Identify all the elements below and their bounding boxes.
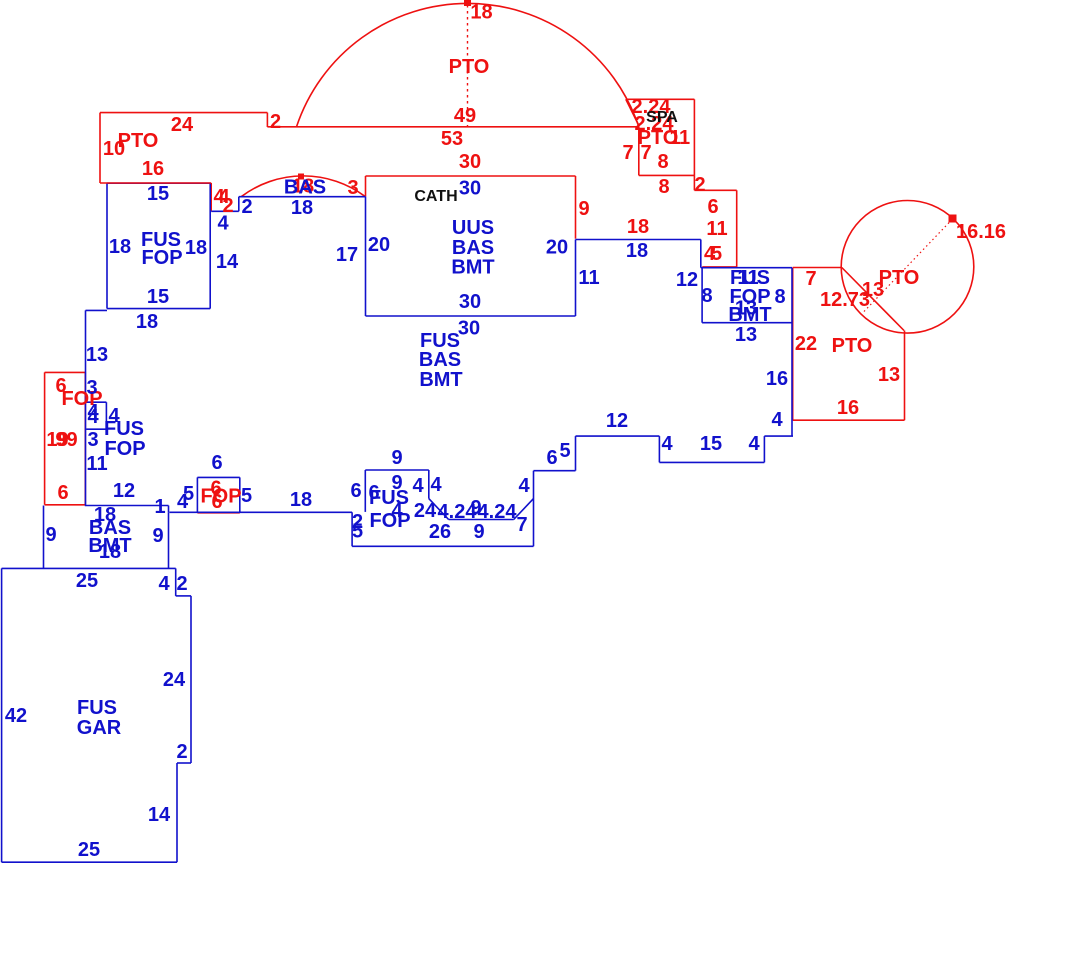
svg-text:15: 15	[147, 183, 169, 205]
svg-text:2: 2	[270, 111, 281, 133]
SPA box top wall	[626, 98, 695, 100]
svg-text:CATH: CATH	[414, 188, 457, 205]
svg-text:8: 8	[774, 286, 785, 308]
svg-text:5: 5	[241, 485, 252, 507]
svg-text:15: 15	[700, 433, 722, 455]
wall step 2 right of PTO rect	[266, 113, 268, 127]
outer step wall below FUS FOP	[86, 309, 108, 311]
step wall 5 down	[575, 436, 577, 471]
svg-text:18: 18	[136, 311, 158, 333]
step wall 1	[168, 506, 170, 513]
dome step wall 4	[211, 210, 239, 212]
small FOP box left wall	[196, 477, 198, 512]
svg-text:3: 3	[86, 377, 97, 399]
svg-text:16: 16	[837, 397, 859, 419]
bottom FUS FOP left wall 5	[351, 512, 353, 546]
svg-text:4: 4	[177, 491, 189, 513]
svg-text:11: 11	[578, 267, 599, 289]
small left box top wall 4	[86, 401, 106, 403]
svg-text:20: 20	[546, 237, 568, 259]
svg-text:30: 30	[459, 291, 481, 313]
inner FUS FOP right wall 4	[428, 470, 430, 499]
svg-text:FOP: FOP	[369, 510, 410, 532]
svg-text:26: 26	[429, 521, 451, 543]
svg-text:18: 18	[185, 237, 207, 259]
step wall 4	[764, 435, 793, 437]
svg-text:9: 9	[391, 447, 402, 469]
svg-text:BMT: BMT	[728, 304, 771, 326]
svg-text:9: 9	[473, 521, 484, 543]
svg-text:4: 4	[87, 406, 99, 428]
svg-text:16: 16	[766, 368, 788, 390]
inner FUS FOP top wall 9	[365, 469, 429, 471]
svg-text:30: 30	[458, 318, 480, 340]
svg-text:12: 12	[113, 480, 135, 502]
small FOP box red bottom wall	[197, 512, 239, 514]
svg-text:6: 6	[707, 196, 718, 218]
svg-text:BMT: BMT	[419, 369, 462, 391]
bottom FUS FOP bottom wall 26	[352, 545, 533, 547]
svg-text:1: 1	[154, 496, 165, 518]
svg-text:PTO: PTO	[449, 56, 490, 78]
svg-text:20: 20	[368, 234, 390, 256]
big box top wall 30 red	[366, 175, 576, 177]
svg-text:6: 6	[546, 447, 557, 469]
FUS GAR right wall 14	[176, 763, 178, 862]
svg-text:6: 6	[350, 480, 361, 502]
step wall 4 down	[763, 436, 765, 462]
svg-text:15: 15	[147, 286, 169, 308]
big box right wall 11 blue	[575, 240, 577, 317]
arc apex marker	[464, 0, 471, 6]
inner bottom wall 9	[449, 519, 514, 521]
svg-text:18: 18	[626, 240, 648, 262]
FUS FOP box right wall 14	[209, 183, 211, 308]
inner diagonal wall 4.24 left	[429, 499, 449, 520]
FUS GAR left wall 42	[1, 568, 3, 862]
svg-text:9: 9	[578, 198, 589, 220]
inner FUS FOP left wall 6	[364, 470, 366, 512]
SPA left wall 7	[638, 127, 640, 176]
FUS GAR notch wall 2	[177, 762, 191, 764]
svg-text:1: 1	[679, 127, 690, 149]
svg-text:7: 7	[640, 142, 651, 164]
big box left wall 20	[365, 197, 367, 316]
svg-text:5: 5	[711, 243, 722, 265]
svg-text:4: 4	[430, 474, 442, 496]
svg-text:4: 4	[412, 475, 424, 497]
svg-text:13: 13	[86, 344, 108, 366]
SPA bottom wall 8	[639, 174, 695, 176]
bottom FUS FOP right wall	[533, 471, 535, 547]
svg-text:7: 7	[805, 268, 816, 290]
long wall 18 to BAS BMT	[170, 511, 353, 513]
svg-text:17: 17	[336, 244, 358, 266]
svg-text:18: 18	[99, 541, 121, 563]
circle diameter dotted line	[864, 219, 953, 312]
step wall 4 up	[658, 436, 660, 462]
svg-text:49: 49	[454, 105, 476, 127]
svg-text:4: 4	[518, 475, 530, 497]
left FOP red box left wall 19	[44, 372, 46, 504]
BAS BMT left wall 9	[43, 506, 45, 569]
svg-text:25: 25	[76, 570, 98, 592]
FUS FOP BMT box top wall	[701, 267, 792, 269]
red wall 3 big box left top	[365, 176, 367, 197]
wall 18 right of big box	[576, 239, 701, 241]
step wall 6	[534, 470, 576, 472]
left FOP red box right wall	[84, 372, 86, 504]
svg-text:GAR: GAR	[77, 717, 122, 739]
FUS FOP BMT box left wall 8	[701, 268, 703, 323]
svg-text:FUS: FUS	[77, 697, 117, 719]
svg-text:12: 12	[676, 269, 698, 291]
svg-text:6: 6	[211, 491, 222, 513]
svg-text:11: 11	[706, 218, 727, 240]
svg-text:13: 13	[735, 324, 757, 346]
svg-text:2: 2	[176, 573, 187, 595]
big box right wall 9 red	[575, 176, 577, 239]
big top arc PTO	[297, 3, 639, 126]
svg-text:BMT: BMT	[451, 257, 494, 279]
svg-text:FUS: FUS	[369, 487, 409, 509]
svg-text:4.24: 4.24	[478, 501, 518, 523]
svg-text:25: 25	[78, 839, 100, 861]
svg-text:6: 6	[211, 452, 222, 474]
svg-text:FOP: FOP	[141, 247, 182, 269]
FUS GAR step wall 2	[176, 595, 191, 597]
right wall 16 down along PTO	[791, 268, 793, 436]
step wall 15	[659, 461, 764, 463]
arc rise dotted line	[467, 5, 469, 127]
SPA right wall	[693, 99, 695, 175]
svg-text:PTO: PTO	[832, 335, 873, 357]
FUS FOP box left wall 18	[106, 183, 108, 308]
right PTO left wall 22	[792, 268, 794, 421]
svg-text:30: 30	[459, 151, 481, 173]
circle diameter marker	[949, 215, 957, 223]
svg-text:4: 4	[748, 433, 760, 455]
SPA diagonal wall 2.24	[626, 99, 639, 125]
svg-text:2: 2	[694, 174, 705, 196]
svg-text:5: 5	[352, 521, 363, 543]
svg-text:SPA: SPA	[646, 109, 678, 126]
step wall 6	[694, 189, 736, 191]
dome chord wall 18	[239, 196, 366, 198]
svg-text:14: 14	[216, 251, 239, 273]
svg-text:10: 10	[103, 138, 125, 160]
small left box right wall	[105, 402, 107, 429]
inner diagonal wall 4.24 right	[514, 499, 534, 520]
PTO top-left rect left wall 10	[99, 113, 101, 183]
svg-text:30: 30	[459, 178, 481, 200]
FUS FOP BMT box bottom wall 13	[702, 322, 792, 324]
dome apex marker	[298, 174, 304, 180]
dome step wall 2	[238, 197, 240, 212]
small left box bottom wall	[86, 428, 106, 430]
right PTO diagonal wall 12.73	[842, 268, 904, 331]
small FOP box right wall	[239, 477, 241, 512]
FUS GAR right wall 24	[190, 596, 192, 763]
svg-text:3: 3	[87, 429, 98, 451]
small FOP box top wall 6	[197, 476, 239, 478]
PTO top-left rect bottom wall 16	[100, 182, 211, 184]
svg-text:6: 6	[57, 482, 68, 504]
svg-text:13: 13	[878, 364, 900, 386]
svg-text:5: 5	[559, 440, 570, 462]
svg-text:7: 7	[622, 142, 633, 164]
right PTO bottom wall 16	[793, 419, 905, 421]
svg-text:BAS: BAS	[419, 349, 461, 371]
PTO top-left rect top wall 24	[100, 112, 267, 114]
svg-text:4: 4	[771, 409, 783, 431]
svg-text:18: 18	[627, 216, 649, 238]
left FOP red box top wall 6	[45, 371, 86, 373]
svg-text:18: 18	[291, 197, 313, 219]
svg-text:BAS: BAS	[284, 177, 326, 199]
svg-text:24: 24	[163, 669, 186, 691]
svg-text:24: 24	[414, 500, 437, 522]
BAS BMT right wall 9	[168, 512, 170, 568]
svg-text:53: 53	[441, 128, 463, 150]
step wall 12	[576, 435, 660, 437]
svg-text:18: 18	[470, 2, 492, 24]
svg-text:8: 8	[701, 285, 712, 307]
svg-text:UUS: UUS	[452, 217, 494, 239]
svg-text:18: 18	[109, 236, 131, 258]
big box bottom wall 30	[366, 315, 576, 317]
PTO circle 16.16	[841, 200, 974, 333]
outer left wall 13	[85, 310, 87, 505]
svg-text:7: 7	[516, 514, 527, 536]
step wall 5 shelf	[702, 266, 736, 268]
svg-text:2: 2	[241, 196, 252, 218]
svg-text:FUS: FUS	[104, 418, 144, 440]
svg-text:18: 18	[290, 489, 312, 511]
svg-text:16: 16	[142, 158, 164, 180]
right PTO right wall 13	[904, 331, 906, 421]
step wall 2 below SPA	[693, 175, 695, 190]
svg-text:12: 12	[606, 410, 628, 432]
svg-text:9: 9	[152, 525, 163, 547]
svg-text:4: 4	[158, 573, 170, 595]
dome arc red	[241, 176, 365, 197]
BAS BMT top wall 12	[85, 505, 169, 507]
FUS FOP box bottom wall 15	[107, 308, 210, 310]
FUS FOP box top wall 15	[107, 182, 210, 184]
svg-text:PTO: PTO	[879, 267, 920, 289]
left FOP red box bottom wall 6	[45, 504, 86, 506]
svg-text:99: 99	[55, 429, 77, 451]
FUS GAR bottom wall 25	[2, 861, 177, 863]
svg-text:9: 9	[45, 524, 56, 546]
svg-text:3: 3	[347, 177, 358, 199]
svg-text:8: 8	[658, 176, 669, 198]
svg-text:16.16: 16.16	[956, 221, 1006, 243]
arc chord wall 53	[267, 126, 638, 128]
step wall 11	[736, 190, 738, 267]
svg-text:42: 42	[5, 705, 27, 727]
red wall 4 at x211	[210, 183, 212, 211]
svg-text:FOP: FOP	[104, 438, 145, 460]
svg-text:24: 24	[171, 114, 194, 136]
svg-text:4: 4	[661, 433, 673, 455]
svg-text:22: 22	[795, 333, 817, 355]
wall 12 down to FUS FOP BMT	[700, 240, 702, 268]
right PTO top wall 7	[793, 267, 842, 269]
FUS GAR top wall 25	[2, 567, 176, 569]
svg-text:8: 8	[657, 151, 668, 173]
svg-text:4: 4	[217, 213, 229, 235]
FUS GAR step wall 4	[175, 568, 177, 596]
svg-text:14: 14	[148, 804, 171, 826]
svg-text:2: 2	[176, 741, 187, 763]
